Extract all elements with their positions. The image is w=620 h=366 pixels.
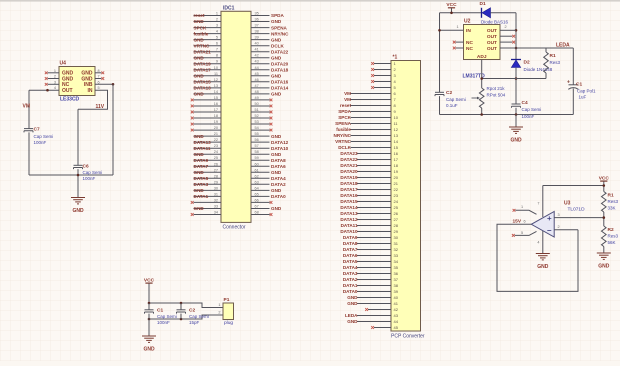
no-connect x [270, 117, 273, 120]
no-connect x [191, 213, 194, 216]
IDC1 pin 17 (left) [194, 111, 222, 113]
svg-text:DATA16: DATA16 [271, 80, 289, 85]
svg-text:GND: GND [194, 170, 205, 175]
IDC1 pin 33 (left) [194, 208, 222, 210]
svg-text:GND: GND [194, 19, 205, 24]
PCP pin 28 [357, 225, 391, 227]
capacitor C6 plates [74, 165, 83, 169]
svg-text:13: 13 [394, 133, 399, 138]
svg-text:GND: GND [194, 188, 205, 193]
svg-text:36: 36 [394, 271, 399, 276]
IDC1 pin 12 (left) [194, 81, 222, 83]
IDC1 pin 55 (right) [251, 135, 270, 137]
op-amp U3 TL071D [531, 212, 554, 238]
svg-text:8: 8 [98, 69, 100, 73]
pin 1 stub [515, 210, 536, 214]
IDC1 pin 9 (left) [194, 63, 222, 65]
IDC1 pin 25 (left) [194, 159, 222, 161]
svg-text:25: 25 [214, 156, 218, 160]
IDC1 pin 20 (left) [194, 129, 222, 131]
IDC1 pin 54 (right) [251, 129, 270, 131]
IDC1 pin 57 (right) [251, 147, 270, 149]
op-amp + input marker [547, 216, 551, 220]
feedback loop wire [497, 224, 578, 291]
svg-text:DATA10: DATA10 [271, 146, 289, 151]
svg-text:GND: GND [271, 170, 282, 175]
svg-text:SPENA: SPENA [335, 121, 352, 126]
resistor R1 zigzag [544, 52, 549, 73]
svg-text:DATA19: DATA19 [340, 175, 358, 180]
junction Rpot/rail [480, 113, 483, 116]
PCP pin 17 [357, 159, 391, 161]
IDC1 pin 14 (left) [194, 93, 222, 95]
svg-text:DATA13: DATA13 [194, 140, 212, 145]
svg-text:Diode BAS16: Diode BAS16 [481, 20, 509, 25]
wire U4 INB pin [95, 83, 113, 85]
IDC1 pin 30 (left) [194, 189, 222, 191]
IDC1 pin 58 (right) [251, 153, 270, 155]
Rpot wiper arrow [472, 97, 478, 99]
IDC1 pin 29 (left) [194, 183, 222, 185]
svg-text:GND: GND [347, 301, 358, 306]
svg-text:66: 66 [255, 198, 259, 202]
IDC1 pin 1 (left) [194, 15, 222, 17]
no-connect x [365, 308, 368, 311]
svg-text:LEDA: LEDA [556, 43, 570, 49]
VCC stem [451, 8, 453, 13]
svg-text:48: 48 [255, 90, 259, 94]
svg-text:5: 5 [521, 231, 523, 235]
capacitor C2 plates [435, 92, 444, 96]
no-connect x [270, 99, 273, 102]
U2 NC stub [456, 41, 464, 43]
PCP pin 6 [351, 93, 392, 95]
wire V+ to VCC node [543, 185, 604, 187]
svg-text:U4: U4 [60, 61, 67, 67]
svg-text:DATA18: DATA18 [271, 67, 289, 72]
junction C4/rail [515, 113, 518, 116]
svg-text:DATA6: DATA6 [271, 164, 286, 169]
PCP pin 16 [357, 153, 391, 155]
IDC1 pin 45 (right) [251, 75, 270, 77]
IDC1 pin 8 (left) [194, 57, 222, 59]
svg-text:51: 51 [255, 108, 259, 112]
svg-text:62: 62 [255, 174, 259, 178]
svg-text:C1: C1 [576, 82, 582, 88]
PCP pin 33 [357, 255, 391, 257]
svg-text:60: 60 [255, 162, 259, 166]
svg-text:TL071D: TL071D [568, 207, 586, 213]
svg-text:DATA1: DATA1 [343, 283, 358, 288]
IDC1 pin 22 (left) [194, 141, 222, 143]
IDC1 pin 16 (left) [194, 105, 222, 107]
svg-text:Cap Semi: Cap Semi [157, 314, 177, 319]
svg-text:reset: reset [194, 13, 205, 18]
svg-text:11: 11 [214, 72, 218, 76]
PCP pin 40 [357, 297, 391, 299]
svg-text:40: 40 [394, 295, 399, 300]
PCP pin 25 [357, 207, 391, 209]
Rpot zigzag [479, 88, 484, 108]
svg-text:SPDA: SPDA [338, 109, 351, 114]
svg-text:4: 4 [216, 30, 218, 34]
svg-text:DATA2: DATA2 [343, 277, 358, 282]
svg-text:DATA3: DATA3 [343, 271, 358, 276]
svg-text:P1: P1 [224, 297, 230, 303]
R1 top stub [545, 48, 547, 52]
svg-text:1uF: 1uF [579, 95, 587, 100]
svg-text:33: 33 [394, 253, 399, 258]
no-connect x [371, 62, 374, 65]
svg-text:VM: VM [23, 104, 31, 110]
svg-text:35: 35 [394, 265, 399, 270]
wire 11V down to C6 [77, 109, 79, 165]
wire C7 to bottom rail [28, 132, 30, 175]
junction INB/right rail [112, 83, 115, 86]
PCP pin 36 [357, 273, 391, 275]
svg-text:24: 24 [394, 199, 399, 204]
PCP pin 5 [374, 87, 391, 89]
V+ pin wire [542, 186, 544, 218]
svg-text:+: + [567, 80, 570, 86]
PCP pin 45 [374, 327, 391, 329]
svg-text:NC: NC [466, 46, 473, 52]
svg-text:GND: GND [194, 37, 205, 42]
IDC1 pin 34 (left) [194, 214, 222, 216]
svg-text:U3: U3 [564, 201, 571, 207]
svg-text:15V: 15V [513, 218, 522, 224]
svg-text:LE33CD: LE33CD [60, 97, 80, 103]
PCP pin 44 [357, 321, 391, 323]
svg-text:2: 2 [505, 25, 507, 29]
PCP pin 7 [351, 99, 392, 101]
svg-text:34: 34 [214, 210, 218, 214]
svg-text:11V: 11V [96, 104, 105, 110]
PCP pin 19 [357, 171, 391, 173]
PCP pin 43 [357, 315, 391, 317]
svg-text:VCC: VCC [144, 277, 155, 283]
svg-text:8: 8 [216, 54, 218, 58]
svg-text:Cap Semi: Cap Semi [34, 134, 54, 139]
junction OUT4/LEDA [515, 47, 518, 50]
svg-text:DATA8: DATA8 [271, 158, 286, 163]
svg-text:16: 16 [394, 151, 399, 156]
diode D2 symbol [511, 59, 521, 61]
no-connect x [371, 74, 374, 77]
svg-text:44: 44 [255, 66, 259, 70]
no-connect x [453, 47, 456, 50]
svg-text:58: 58 [255, 150, 259, 154]
svg-text:DATA13: DATA13 [194, 86, 212, 91]
svg-text:GND: GND [271, 74, 282, 79]
IDC1 pin 18 (left) [194, 117, 222, 119]
wire D1 to node [491, 12, 517, 14]
no-connect x [371, 86, 374, 89]
U4 left pin 3 stub [48, 83, 60, 85]
svg-text:fusible: fusible [194, 31, 209, 36]
svg-text:DATA18: DATA18 [340, 181, 358, 186]
no-connect x [101, 77, 104, 80]
PCP pin 38 [357, 285, 391, 287]
no-connect x [371, 80, 374, 83]
svg-text:NRY/NC: NRY/NC [271, 31, 289, 36]
svg-text:DATA14: DATA14 [340, 205, 358, 210]
IDC1 pin 47 (right) [251, 87, 270, 89]
svg-text:DATA3: DATA3 [194, 182, 209, 187]
svg-text:1: 1 [457, 25, 459, 29]
svg-text:14: 14 [214, 90, 218, 94]
C2b bottom stub [180, 314, 182, 319]
ADJ pin wire down [481, 60, 483, 89]
svg-text:50: 50 [255, 102, 259, 106]
IDC1 pin 53 (right) [251, 123, 270, 125]
U4 right pin 8 stub [95, 72, 102, 74]
svg-text:37: 37 [394, 277, 399, 282]
diode D1 symbol [481, 8, 483, 18]
svg-text:DATA9: DATA9 [343, 235, 358, 240]
no-connect x [270, 213, 273, 216]
svg-text:5: 5 [98, 86, 100, 90]
svg-text:Res3: Res3 [550, 60, 561, 65]
svg-text:DATA17: DATA17 [194, 67, 212, 72]
PCP pin 9 [351, 111, 392, 113]
svg-text:IN: IN [466, 28, 471, 34]
svg-text:22: 22 [214, 138, 218, 142]
svg-text:GND: GND [347, 319, 358, 324]
svg-text:47: 47 [255, 84, 259, 88]
svg-text:1: 1 [216, 12, 218, 16]
svg-text:GND: GND [194, 55, 205, 60]
PCP pin 20 [357, 177, 391, 179]
wire U4 IN pin to 11V node [78, 90, 108, 109]
svg-text:29: 29 [214, 180, 218, 184]
capacitor C1b plates [145, 310, 154, 314]
svg-text:DATA17: DATA17 [340, 187, 358, 192]
svg-text:*1: *1 [393, 55, 398, 61]
svg-text:45: 45 [394, 325, 399, 330]
PCP pin 10 [351, 117, 392, 119]
no-connect x [191, 117, 194, 120]
svg-text:GND: GND [347, 295, 358, 300]
capacitor C4 plates [512, 104, 521, 108]
IDC1 pin 26 (left) [194, 165, 222, 167]
svg-text:26: 26 [394, 211, 399, 216]
svg-text:GND: GND [194, 206, 205, 211]
svg-text:U2: U2 [464, 19, 471, 25]
svg-text:3: 3 [558, 213, 560, 217]
svg-text:20: 20 [394, 175, 399, 180]
svg-text:40: 40 [255, 42, 259, 46]
svg-text:fusible: fusible [336, 127, 351, 132]
svg-text:GND: GND [194, 134, 205, 139]
svg-text:DATA20: DATA20 [271, 61, 289, 66]
PCP pin 42 [368, 309, 391, 311]
junction divider mid [603, 216, 606, 219]
svg-text:10: 10 [394, 115, 399, 120]
junction C1b top [148, 302, 151, 305]
junction C1b bottom [148, 318, 151, 321]
svg-text:GND: GND [271, 37, 282, 42]
svg-text:34: 34 [394, 259, 399, 264]
svg-text:C4: C4 [522, 100, 528, 106]
op-amp - input marker [547, 229, 551, 231]
svg-text:DATA15: DATA15 [340, 199, 358, 204]
VM rail down to C7 [28, 90, 30, 128]
svg-text:DATA9: DATA9 [194, 158, 209, 163]
wire to U2 IN [440, 29, 464, 31]
IDC1 pin 51 (right) [251, 111, 270, 113]
svg-text:54: 54 [255, 126, 259, 130]
ground op-amp [536, 254, 550, 260]
IDC1 pin 41 (right) [251, 51, 270, 53]
svg-text:4: 4 [537, 241, 539, 245]
IDC1 pin 5 (left) [194, 39, 222, 41]
IDC1 pin 67 (right) [251, 208, 270, 210]
svg-text:Cap Semi: Cap Semi [83, 170, 103, 175]
wire U2 OUT1 [500, 29, 516, 31]
svg-text:GND: GND [194, 92, 205, 97]
no-connect x [512, 41, 515, 44]
VCC stem divider [603, 182, 605, 192]
svg-text:GND: GND [271, 92, 282, 97]
svg-text:GND: GND [194, 152, 205, 157]
svg-text:DATA15: DATA15 [194, 80, 212, 85]
svg-text:Cap Semi: Cap Semi [189, 314, 209, 319]
svg-text:DATA12: DATA12 [271, 140, 289, 145]
svg-text:DATA6: DATA6 [343, 253, 358, 258]
svg-text:37: 37 [255, 24, 259, 28]
ADJ net horizontal wire [482, 78, 546, 80]
svg-text:14: 14 [394, 139, 399, 144]
IDC1 pin 37 (right) [251, 27, 270, 29]
capacitor C7 plates [24, 129, 33, 133]
IDC1 pin 65 (right) [251, 195, 270, 197]
svg-text:SPENA: SPENA [271, 25, 288, 30]
PCP pin 11 [351, 123, 392, 125]
svg-text:28: 28 [394, 223, 399, 228]
svg-text:32: 32 [214, 198, 218, 202]
divider mid wire [603, 212, 605, 226]
IDC1 pin 19 (left) [194, 123, 222, 125]
svg-text:OUT: OUT [487, 34, 497, 40]
svg-text:ADJ: ADJ [477, 54, 487, 60]
svg-text:52: 52 [255, 114, 259, 118]
svg-text:SPCK: SPCK [338, 115, 351, 120]
svg-text:63: 63 [255, 180, 259, 184]
junction OUT1 [515, 29, 518, 32]
svg-text:R2: R2 [608, 227, 614, 233]
U2 NC stub [456, 47, 464, 49]
junction ADJ/horizontal [480, 77, 483, 80]
IDC1 pin 4 (left) [194, 33, 222, 35]
IDC1 pin 13 (left) [194, 87, 222, 89]
no-connect x [270, 105, 273, 108]
svg-text:VCC: VCC [446, 2, 457, 8]
svg-text:D2: D2 [524, 60, 530, 66]
svg-text:DATA7: DATA7 [194, 164, 209, 169]
svg-text:16: 16 [214, 102, 218, 106]
svg-text:Res3: Res3 [608, 234, 619, 239]
svg-text:2: 2 [216, 18, 218, 22]
PCP pin 13 [351, 135, 392, 137]
svg-text:NRY/NC: NRY/NC [334, 133, 352, 138]
svg-text:59: 59 [255, 156, 259, 160]
svg-text:10: 10 [214, 66, 218, 70]
svg-text:GND: GND [271, 19, 282, 24]
svg-text:42: 42 [255, 54, 259, 58]
IDC1 pin 62 (right) [251, 177, 270, 179]
junction at U4 OUT [46, 89, 49, 92]
PCP pin 32 [357, 249, 391, 251]
IDC1 pin 52 (right) [251, 117, 270, 119]
C2 bottom to rail [439, 96, 441, 114]
svg-text:19: 19 [214, 120, 218, 124]
svg-text:DATA4: DATA4 [271, 176, 286, 181]
top rail to plug pin 1 [149, 303, 223, 308]
svg-text:100nF: 100nF [522, 114, 535, 119]
IDC1 pin 44 (right) [251, 69, 270, 71]
V- pin wire [542, 231, 544, 253]
svg-text:25: 25 [394, 205, 399, 210]
no-connect x [512, 35, 515, 38]
PCP pin 2 [374, 69, 391, 71]
IDC1 pin 32 (left) [194, 201, 222, 203]
svg-text:Cap Semi: Cap Semi [446, 97, 466, 102]
no-connect x [191, 99, 194, 102]
svg-text:9: 9 [216, 60, 218, 64]
svg-text:39: 39 [394, 289, 399, 294]
svg-text:41: 41 [394, 301, 399, 306]
svg-text:53: 53 [255, 120, 259, 124]
IDC1 pin 68 (right) [251, 214, 270, 216]
svg-text:R1: R1 [608, 193, 614, 199]
wire to ground [515, 115, 517, 127]
svg-text:Rpot 21k: Rpot 21k [487, 86, 506, 91]
svg-text:1: 1 [521, 205, 523, 209]
svg-text:RPot 504: RPot 504 [487, 93, 506, 98]
junction VCC/V+ [603, 184, 606, 187]
svg-text:GND: GND [271, 188, 282, 193]
IDC1 pin 59 (right) [251, 159, 270, 161]
plug body [223, 303, 234, 320]
svg-text:5: 5 [216, 36, 218, 40]
svg-text:VRTNC: VRTNC [335, 139, 352, 144]
no-connect x [45, 77, 48, 80]
svg-text:22: 22 [394, 187, 399, 192]
svg-text:DATA23: DATA23 [340, 151, 358, 156]
svg-text:OUT: OUT [487, 40, 497, 46]
IDC1 pin 15 (left) [194, 99, 222, 101]
svg-text:C7: C7 [34, 127, 40, 133]
op U4 body [59, 67, 95, 96]
U2 body [464, 25, 501, 60]
svg-text:IN: IN [88, 88, 93, 94]
junction ADJ line/D2 [515, 77, 518, 80]
svg-text:100nF: 100nF [34, 140, 47, 145]
R2 bottom stub [603, 247, 605, 253]
C1b bottom stub [148, 314, 150, 319]
wire LEDA down to C1 [572, 48, 574, 85]
bottom rail to plug pin 2 [149, 315, 223, 319]
svg-text:GND: GND [72, 208, 84, 214]
svg-text:GND: GND [271, 55, 282, 60]
IDC1 pin 42 (right) [251, 57, 270, 59]
no-connect x [45, 71, 48, 74]
svg-text:SPCK: SPCK [194, 25, 207, 30]
svg-text:OUT: OUT [62, 88, 73, 94]
no-connect x [270, 201, 273, 204]
svg-text:GND: GND [598, 264, 610, 270]
